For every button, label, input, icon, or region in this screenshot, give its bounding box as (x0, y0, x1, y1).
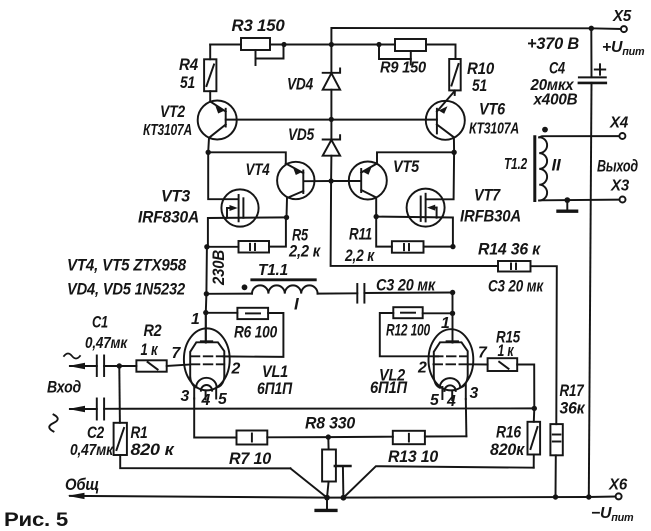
label Vkhod (47, 379, 81, 397)
wire top rail +370V (331, 28, 621, 45)
svg-text:R17: R17 (560, 382, 585, 400)
svg-text:1: 1 (191, 311, 200, 328)
node VT6 collector (451, 150, 456, 155)
svg-text:VT4, VT5 ZTX958: VT4, VT5 ZTX958 (67, 256, 187, 275)
svg-text:С1: С1 (92, 314, 108, 332)
label pin 7 VL2 (478, 345, 488, 362)
resistor R1 820k (114, 366, 291, 468)
svg-text:VT3: VT3 (161, 187, 191, 206)
svg-text:R13 10: R13 10 (388, 448, 438, 466)
svg-text:R10: R10 (467, 60, 494, 78)
mosfet VT3 IRF830A (138, 152, 259, 226)
tube VL1 6P1P envelope (184, 328, 230, 390)
svg-text:Рис. 5: Рис. 5 (4, 509, 68, 531)
capacitor C1 0,47mk (97, 356, 137, 377)
svg-text:1 к: 1 к (498, 342, 515, 360)
svg-text:R8 330: R8 330 (305, 415, 355, 433)
wire 230V anode feed (205, 247, 208, 294)
transformer T1.2 secondary winding II (504, 127, 561, 201)
svg-text:R7 10: R7 10 (229, 450, 271, 468)
node top rail / C4 junction (589, 26, 594, 31)
svg-text:КТ3107А: КТ3107А (143, 122, 192, 139)
svg-text:VT7: VT7 (474, 186, 502, 205)
resistor R11 2,2k (344, 217, 453, 265)
label 6P1P VL1 (257, 380, 293, 398)
svg-text:Х6: Х6 (608, 477, 627, 494)
svg-text:VD4: VD4 (287, 76, 313, 94)
svg-text:Х5: Х5 (612, 8, 631, 25)
capacitor C2 0,47mk (97, 399, 104, 420)
svg-text:Вход: Вход (47, 379, 81, 397)
tube VL2 cathode dome (434, 378, 468, 391)
svg-text:С3 20 мк: С3 20 мк (376, 277, 436, 295)
wire VL1 anode column (205, 294, 208, 342)
label C2 value 0,47mk (70, 442, 114, 459)
wire base rail VT2-VT6 (226, 119, 437, 121)
node C1 / R1 junction (117, 363, 122, 368)
tube VL1 cathode dome (190, 378, 224, 391)
label pin 2 VL2 (417, 360, 427, 377)
wire VT3 source line (208, 217, 287, 246)
node R6 left (203, 310, 208, 315)
node R12 right / VL2 anode (450, 311, 455, 316)
resistor R3 150 (232, 17, 285, 65)
svg-text:4: 4 (446, 393, 456, 410)
svg-text:2: 2 (231, 361, 241, 378)
wire R8 top to R13 (328, 436, 393, 438)
node C3 right / VL2 anode (450, 290, 455, 295)
svg-text:VD5: VD5 (288, 126, 315, 144)
label 6P1P VL2 (370, 379, 408, 397)
node VT5/VT7 source junction (374, 214, 379, 219)
node R17 bottom (553, 494, 558, 499)
resistor R14 36k (478, 241, 557, 425)
terminal X5 (612, 8, 631, 32)
tube VL2 anode pin 1 (434, 293, 468, 378)
label C2 (87, 424, 104, 442)
node R3 tap junction (281, 42, 286, 47)
resistor R5 2,2k (207, 217, 321, 260)
node R5 left / anode feed (204, 244, 209, 249)
svg-text:51: 51 (180, 74, 195, 92)
resistor R2 1k (136, 322, 190, 372)
label Vykhod (597, 158, 638, 176)
svg-text:6П1П: 6П1П (257, 380, 293, 398)
svg-text:R4: R4 (179, 56, 198, 74)
wire VT6 collector to VT5 emitter (377, 152, 454, 163)
terminal common arrow and wire (68, 493, 616, 499)
node ground junction (324, 495, 330, 501)
label VL1 (262, 363, 288, 381)
transistor VT2 KT3107A (143, 101, 237, 153)
svg-text:820 к: 820 к (131, 441, 175, 459)
terminal X6 (608, 477, 627, 500)
tube VL1 pins 3 4 5 (181, 387, 228, 410)
node T1.2 ground junction (564, 197, 570, 203)
resistor R12 100 (380, 307, 453, 356)
label R8 330 (305, 415, 355, 433)
svg-text:х400В: х400В (533, 92, 578, 109)
svg-text:VT4: VT4 (246, 160, 271, 179)
node chassis junction (341, 495, 347, 501)
svg-text:Выход: Выход (597, 158, 638, 176)
ground symbol (316, 498, 336, 511)
resistor R9 150 (379, 39, 426, 77)
resistor R4 51 (179, 45, 216, 102)
resistor R17 36k (550, 382, 585, 497)
node R8 top (326, 434, 331, 439)
resistor R13 10 (388, 431, 466, 466)
svg-text:6П1П: 6П1П (370, 379, 408, 397)
svg-text:IRF830А: IRF830А (138, 209, 199, 227)
svg-text:R16: R16 (496, 424, 522, 442)
caption Ris. 5 (4, 509, 68, 531)
node center column top (329, 42, 334, 47)
svg-text:R12 100: R12 100 (386, 322, 430, 340)
wire second rail (210, 45, 455, 60)
svg-text:0,47мк: 0,47мк (70, 442, 114, 459)
zener diode VD5 (288, 119, 340, 181)
wire VL2 cathode pin 3 (465, 399, 468, 436)
svg-text:R1: R1 (131, 424, 148, 442)
label pin 7 VL1 (172, 345, 182, 362)
svg-text:1 к: 1 к (141, 341, 159, 359)
svg-text:1: 1 (441, 315, 450, 332)
label VL2 (379, 367, 405, 385)
resistor R16 820k (490, 408, 540, 467)
wire R1 diagonal to ground node (290, 468, 327, 497)
node VT2 collector (206, 150, 211, 155)
svg-text:II: II (552, 156, 561, 175)
svg-text:VL1: VL1 (262, 363, 288, 381)
wire C2 to R15/R16 node (104, 407, 534, 409)
wire VT2 collector to VT4 emitter (208, 152, 286, 163)
svg-text:36к: 36к (560, 400, 586, 418)
capacitor C3 20mk (357, 277, 452, 303)
svg-text:820к: 820к (490, 441, 525, 459)
tube VL2 6P1P envelope (429, 329, 474, 390)
chassis symbol T1.2 (558, 200, 577, 211)
transistor VT5 ZTX958 (331, 157, 420, 217)
svg-text:I: I (294, 295, 299, 314)
svg-text:51: 51 (472, 77, 487, 95)
svg-text:R6 100: R6 100 (234, 324, 277, 342)
tube VL2 pins 5 4 3 (430, 385, 479, 411)
wire T1.2 top to X4 (539, 136, 619, 137)
tube VL1 anode pin 1 (190, 311, 224, 378)
svg-text:7: 7 (172, 345, 182, 362)
label Obshch (65, 476, 99, 494)
svg-text:3: 3 (181, 388, 190, 405)
node T1.1 left junction (204, 291, 209, 296)
mosfet VT7 IRFB30A (407, 152, 521, 226)
label -Upit (591, 505, 634, 524)
svg-text:2,2 к: 2,2 к (288, 243, 321, 261)
resistor R6 100 (206, 308, 284, 357)
node VT3/VT4 source junction (284, 215, 289, 220)
svg-text:С4: С4 (549, 60, 565, 78)
wire T1.2 bottom to X3 (539, 199, 619, 202)
svg-text:0,47мк: 0,47мк (85, 335, 128, 352)
label VT4, VT5 ZTX958 (67, 256, 187, 275)
svg-text:R9 150: R9 150 (380, 60, 426, 77)
svg-text:IRFB30A: IRFB30A (460, 208, 521, 226)
transistor VT6 KT3107A (426, 91, 519, 152)
wire chassis diagonal to R16 (343, 466, 533, 498)
svg-text:Общ: Общ (65, 476, 99, 494)
capacitor C4 20mk x 400V (530, 28, 606, 497)
svg-text:5: 5 (430, 392, 439, 409)
svg-text:2: 2 (417, 360, 427, 377)
svg-text:VT5: VT5 (393, 157, 420, 176)
resistor R7 10 (229, 431, 328, 469)
label ac sign input 1 (64, 354, 80, 359)
label +370 В (527, 35, 579, 53)
chassis tap symbol (335, 466, 351, 498)
resistor R10 51 (449, 59, 494, 95)
label pin 2 VL1 (231, 361, 241, 378)
tube VL1 grids (191, 356, 224, 364)
svg-text:R2: R2 (144, 322, 162, 340)
node base rail / VD4-VD5 junction (329, 117, 334, 122)
svg-text:VT6: VT6 (479, 100, 506, 119)
svg-text:4: 4 (201, 392, 211, 409)
svg-text:5: 5 (218, 391, 227, 408)
svg-text:230В: 230В (210, 250, 228, 286)
node R11 right / VL2 anode column (450, 244, 455, 249)
svg-text:Т1.2: Т1.2 (504, 156, 527, 173)
transistor VT4 ZTX958 (246, 160, 332, 217)
resistor R8 330 (322, 437, 336, 498)
label VD4, VD5 1N5232 (67, 280, 186, 299)
transformer T1.1 primary winding I (206, 262, 357, 314)
node R9 tap junction (376, 42, 381, 47)
svg-text:КТ3107А: КТ3107А (469, 121, 519, 138)
label 230V (210, 250, 228, 286)
label C1 (92, 314, 108, 332)
label ac sign input 2 (49, 415, 58, 432)
svg-text:С3 20 мк: С3 20 мк (488, 278, 544, 296)
svg-text:3: 3 (470, 385, 479, 402)
svg-text:VD4, VD5 1N5232: VD4, VD5 1N5232 (67, 280, 186, 299)
svg-text:Т1.1: Т1.1 (258, 262, 288, 279)
label C3 20mk right (488, 278, 544, 296)
terminal input 2 arrow (68, 406, 97, 412)
terminal X4 (609, 115, 628, 140)
node R15/R16/C2 junction (532, 406, 537, 411)
wire center column to R14 (331, 181, 498, 266)
label C1 value 0,47mk (85, 335, 128, 352)
svg-text:R3 150: R3 150 (232, 17, 285, 35)
zener diode VD4 (287, 45, 340, 120)
wire VL1 cathode pin 3 (194, 399, 236, 438)
svg-text:Х3: Х3 (610, 178, 629, 195)
resistor R15 1k (468, 329, 535, 409)
node VT4/VT5 base rail junction (329, 178, 334, 183)
svg-text:R14 36 к: R14 36 к (478, 241, 541, 259)
svg-text:+370 В: +370 В (527, 35, 579, 53)
svg-text:С2: С2 (87, 424, 104, 442)
terminal X3 (610, 178, 629, 203)
svg-text:Х4: Х4 (609, 115, 628, 132)
wire VT7 source line (376, 217, 453, 247)
svg-text:2,2 к: 2,2 к (344, 247, 375, 265)
tube VL2 grids (434, 356, 468, 364)
node -U rail bottom (586, 494, 591, 499)
label +Uпит (602, 39, 645, 58)
svg-text:VT2: VT2 (160, 102, 186, 121)
svg-text:7: 7 (478, 345, 488, 362)
terminal input 1 arrow (68, 363, 97, 369)
svg-text:R11: R11 (349, 226, 372, 244)
